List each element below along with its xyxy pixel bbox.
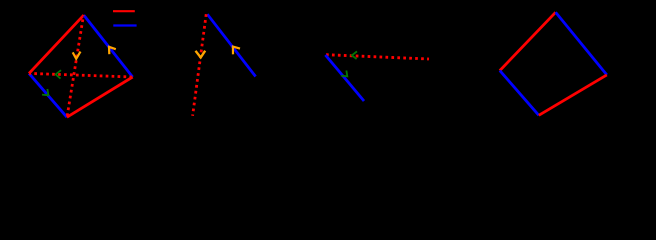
diagram3 arrowhead green left on dotted diagonal <box>352 51 357 59</box>
quad1 diagonal L-R (dotted red) <box>29 73 133 77</box>
diagram3 arrowhead green down-right on blue side <box>341 71 347 77</box>
quad4 side B-R (red solid) <box>539 75 607 115</box>
quad4 side L-T (red solid) <box>500 12 556 70</box>
quad1 side L-B (blue solid) <box>29 73 67 117</box>
legend red line <box>113 10 135 12</box>
quad1 diagonal T-B (dotted red) <box>67 15 84 117</box>
diagram2 side b (blue solid) <box>207 14 255 76</box>
diagram2 arrowhead orange up-left on blue side <box>233 47 240 55</box>
quad4 side L-B (blue solid) <box>500 71 539 116</box>
legend blue line <box>113 24 136 26</box>
quad4 side T-R (blue solid) <box>556 12 607 75</box>
quad1 side L-T (red solid) <box>29 15 84 73</box>
quad1 arrowhead green down-right on side L-B <box>42 89 48 95</box>
diagram2 diagonal (dotted red) <box>193 14 207 116</box>
quad1 arrowhead orange down on diagonal T-B <box>73 52 81 59</box>
quad1 arrowhead green left on diagonal L-R <box>56 70 61 78</box>
diagram2 arrowhead orange down on dotted diagonal <box>196 51 206 58</box>
quad1 arrowhead orange up-left on side T-R <box>109 47 116 54</box>
diagram3 side (blue solid) <box>325 55 364 101</box>
diagram3 diagonal (dotted red) <box>326 55 429 59</box>
quad1 side T-R (blue solid) <box>84 15 133 77</box>
quad1 side B-R (red solid) <box>67 77 133 117</box>
